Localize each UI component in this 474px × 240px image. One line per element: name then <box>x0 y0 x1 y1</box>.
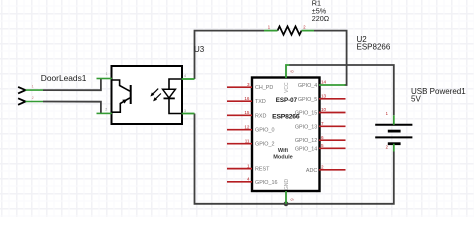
svg-text:RXD: RXD <box>255 113 266 119</box>
phototransistor emitter arrowhead <box>122 99 127 103</box>
svg-text:1: 1 <box>32 85 34 89</box>
svg-text:5V: 5V <box>411 94 421 103</box>
svg-text:TXD: TXD <box>255 99 266 105</box>
svg-text:REST: REST <box>255 167 270 173</box>
svg-text:GND: GND <box>284 179 290 191</box>
svg-text:4: 4 <box>247 177 250 182</box>
svg-text:7: 7 <box>321 121 324 126</box>
LED cathode bar <box>164 97 175 99</box>
svg-text:CH_PD: CH_PD <box>255 85 273 91</box>
ESP leg GPIO_12 pin6 <box>319 139 346 141</box>
optocoupler U3 body <box>112 66 183 124</box>
svg-text:12: 12 <box>244 124 250 129</box>
battery plate long lower <box>375 136 412 138</box>
connector DoorLeads1 pin1 chevron <box>18 87 25 94</box>
ESP leg RXD pin15 <box>227 114 252 116</box>
ESP leg CH_PD pin3 <box>227 86 252 88</box>
phototransistor base bar <box>130 85 132 104</box>
svg-text:GPIO_5: GPIO_5 <box>298 97 317 103</box>
battery USB Powered1 plate long top <box>375 124 412 126</box>
ESP leg VCC pin8 (bent, connected) <box>286 65 290 78</box>
wire from DoorLeads1 pin1 to optocoupler pin1 <box>43 79 101 91</box>
svg-text:3: 3 <box>184 109 186 113</box>
svg-text:15: 15 <box>244 110 250 115</box>
svg-text:10: 10 <box>321 107 327 112</box>
svg-text:DoorLeads1: DoorLeads1 <box>41 73 87 83</box>
svg-text:2: 2 <box>32 96 34 100</box>
svg-text:U3: U3 <box>194 45 205 54</box>
ground wire from battery minus along bottom to optocoupler pin3 <box>195 114 394 204</box>
wire from optocoupler pin4 up to resistor R1 pin1 <box>195 31 265 79</box>
svg-text:GPIO_4: GPIO_4 <box>298 83 317 89</box>
junction dot GND node <box>284 201 289 206</box>
optocoupler left-bottom leg (bent) <box>97 112 112 114</box>
svg-text:2: 2 <box>105 108 107 112</box>
svg-text:1: 1 <box>106 72 108 76</box>
resistor R1 leg1 <box>264 30 278 32</box>
ESP8266 module U2 body <box>252 78 320 192</box>
svg-text:ESP8266: ESP8266 <box>272 113 300 120</box>
svg-text:2: 2 <box>321 165 324 170</box>
wire from ESP8266 VCC to battery plus <box>289 65 394 115</box>
phototransistor collector path <box>113 80 131 91</box>
svg-text:16: 16 <box>244 96 250 101</box>
svg-text:3: 3 <box>247 82 250 87</box>
svg-text:GPIO_2: GPIO_2 <box>255 142 274 148</box>
svg-text:11: 11 <box>245 138 250 143</box>
ESP leg REST pin1 <box>227 168 252 170</box>
LED triangle <box>163 89 176 98</box>
svg-text:5: 5 <box>321 143 324 148</box>
ESP leg GPIO_4 pin14 (connected) <box>319 84 346 86</box>
svg-text:GPIO_16: GPIO_16 <box>255 180 277 186</box>
ESP leg GPIO_5 pin13 <box>319 98 346 100</box>
svg-text:GPIO_12: GPIO_12 <box>295 138 317 144</box>
DoorLeads1 pin1 leg <box>26 89 44 91</box>
svg-text:13: 13 <box>321 94 327 99</box>
svg-text:1: 1 <box>247 163 250 168</box>
svg-text:GPIO_13: GPIO_13 <box>295 124 317 130</box>
ESP leg GND pin9 (connected) <box>285 191 287 204</box>
ESP leg GPIO_15 pin10 <box>319 112 346 114</box>
battery plate short upper <box>388 130 401 133</box>
connector DoorLeads1 pin2 chevron <box>18 98 25 105</box>
LED light arrow 2 <box>155 94 161 100</box>
wire from resistor R1 pin2 to ESP8266 GPIO_4 <box>314 31 347 85</box>
ESP leg ADC pin2 <box>319 169 346 171</box>
svg-text:14: 14 <box>321 80 327 85</box>
battery plate short bottom <box>388 142 401 145</box>
battery minus leg <box>393 144 395 152</box>
ESP leg GPIO_0 pin12 <box>227 129 252 131</box>
ESP leg GPIO_13 pin7 <box>319 125 346 127</box>
svg-text:220Ω: 220Ω <box>312 14 330 23</box>
svg-text:4: 4 <box>184 74 186 78</box>
resistor R1 leg2 <box>302 30 315 32</box>
ESP leg TXD pin16 <box>227 100 252 102</box>
phototransistor emitter path <box>113 98 131 112</box>
svg-text:Wifi: Wifi <box>278 148 289 154</box>
svg-text:GPIO_14: GPIO_14 <box>295 146 317 152</box>
ESP leg GPIO_2 pin11 <box>227 143 252 145</box>
optocoupler right-top leg <box>182 78 195 80</box>
svg-text:ESP-07: ESP-07 <box>276 97 298 104</box>
svg-text:Module: Module <box>273 155 293 161</box>
LED top rail <box>169 79 182 89</box>
svg-text:ADC: ADC <box>306 168 317 174</box>
svg-text:ESP8266: ESP8266 <box>357 43 391 52</box>
battery plus leg <box>393 115 395 125</box>
svg-text:6: 6 <box>321 135 324 140</box>
resistor R1 zigzag <box>278 26 302 34</box>
optocoupler left-top leg (bent) <box>97 78 112 80</box>
DoorLeads1 pin2 leg <box>26 101 44 103</box>
svg-text:VCC: VCC <box>284 82 290 93</box>
LED light arrow 1 <box>152 89 158 95</box>
svg-text:GPIO_0: GPIO_0 <box>255 128 274 134</box>
ESP leg GPIO_14 pin5 <box>319 147 346 149</box>
wire from DoorLeads1 pin2 to optocoupler pin2 <box>43 102 101 114</box>
optocoupler right-bottom leg <box>182 113 195 115</box>
LED bottom rail <box>169 98 182 113</box>
ESP leg GPIO_16 pin4 <box>227 181 252 183</box>
